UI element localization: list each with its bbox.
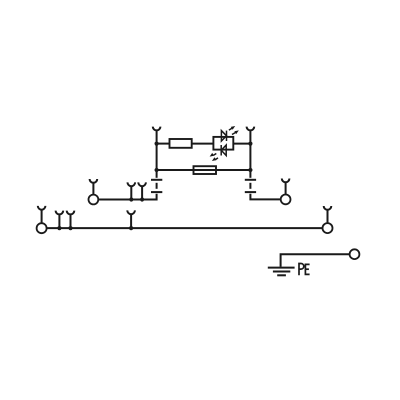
node junction row2 mid-2 — [140, 197, 144, 201]
clamp contact row2 mid-1 — [128, 182, 136, 199]
wire segment: left rail to resistor — [157, 143, 170, 145]
wire: left rail below disconnect, corner to row 2 — [98, 194, 156, 200]
clamp contact row2 mid-2 — [138, 182, 146, 199]
LED D1 emission arrows — [229, 126, 239, 135]
terminal socket PE (plug contact circle) — [350, 249, 360, 259]
wire segment: LED block to right rail — [233, 143, 250, 145]
left rail wire (wire1 to wire2) — [156, 144, 158, 178]
disconnect plug link right (double-bar isolating point) — [245, 180, 256, 192]
node junction row3 mid-2 — [68, 226, 72, 230]
clamp contact above row2-right socket — [282, 179, 290, 195]
clamp contact row3 mid-2 — [67, 211, 75, 229]
node junction row3 mid-3 — [129, 226, 133, 230]
clamp contact top-right (level 1 feed-through) — [247, 127, 255, 144]
wire segment: resistor to LED block — [192, 143, 214, 145]
LED block housing U (status indicator) — [213, 137, 233, 150]
resistor R (series resistor, top branch) — [170, 139, 192, 148]
wire segment: fuse branch right — [216, 169, 250, 171]
clamp contact row3 mid-1 — [56, 211, 64, 229]
node junction left of wire 1 — [155, 142, 159, 146]
terminal socket row3 right (plug contact circle) — [323, 223, 333, 233]
terminal socket row3 left (plug contact circle) — [37, 223, 47, 233]
ground (protective earth symbol) — [268, 268, 295, 276]
fuse F1 (cartridge fuse, lower branch) — [194, 166, 217, 174]
wire row 3 (through line) — [47, 227, 323, 229]
disconnect plug link left (double-bar isolating point) — [151, 180, 162, 192]
terminal socket row2 right (plug contact circle) — [281, 195, 291, 205]
LED D1 (upper, anode left) — [221, 131, 226, 141]
wire PE conductor — [281, 254, 350, 267]
clamp contact top-left (level 1 feed-through) — [153, 127, 161, 144]
terminal socket row2 left (plug contact circle) — [89, 195, 99, 205]
node junction right of wire 1 — [248, 142, 252, 146]
node junction row2 mid-1 — [129, 197, 133, 201]
node junction left of wire 2 — [155, 168, 159, 172]
wire segment: fuse branch left — [157, 169, 194, 171]
clamp contact row3 mid-3 — [127, 210, 135, 228]
node junction right of wire 2 — [248, 168, 252, 172]
LED D2 emission arrows — [210, 153, 218, 161]
clamp contact above row2-left socket — [90, 179, 98, 195]
right rail wire (wire1 to wire2) — [249, 144, 251, 178]
net label PE — [299, 264, 310, 276]
clamp contact above row3-left socket — [38, 206, 46, 223]
wire: right rail below disconnect, corner to row 2 — [250, 194, 280, 200]
LED D2 (lower, anode right) — [221, 145, 226, 156]
node junction row3 mid-1 — [57, 226, 61, 230]
clamp contact above row3-right socket — [324, 206, 332, 223]
